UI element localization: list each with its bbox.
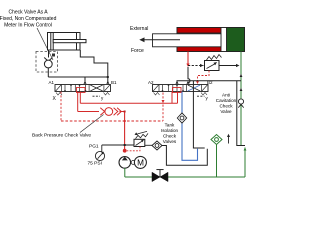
label y with dashes (V2 drain port) [197,95,205,97]
wire: CYL1 cap port to valve V1 port B [80,50,108,84]
svg-text:Meter In Flow Control: Meter In Flow Control [4,22,52,28]
external force arrow [144,39,180,41]
check valve CV2 (back pressure, red) [100,108,121,116]
counterbalance valve CB1 [205,61,220,71]
junction [107,76,109,78]
spring of RV1 [136,133,149,138]
wire: CYL1 rod port down to check valve [48,50,50,58]
check valve CV6 (on green return drop) [238,99,243,104]
svg-text:M: M [137,158,144,167]
label y with dashes (V1 drain port) [93,95,101,97]
svg-text:A2: A2 [148,80,154,85]
svg-text:B1: B1 [111,80,117,85]
wire: A1 riser w/ arrow [84,77,86,84]
wire: pump discharge (red) [124,112,126,151]
wire: V2 tank port (blue) [182,92,198,161]
svg-text:A1: A1 [49,80,55,85]
valve V2 (4/3 solenoid DCV) [153,84,209,95]
svg-text:External: External [130,26,148,32]
leader line from note to check valve [37,28,53,60]
pilot dashed red of CB1 [198,71,210,83]
wire: green riser to suction line [244,148,246,178]
wire: check valve to valve V1 port A [48,76,108,78]
svg-text:Fixed, Non Compensated: Fixed, Non Compensated [0,16,57,22]
svg-text:Back Pressure Check Valve: Back Pressure Check Valve [32,133,91,139]
pump P1 [119,157,131,169]
svg-text:B2: B2 [207,80,213,85]
wire: green stem to suction line [216,145,218,178]
svg-text:Anti: Anti [222,93,230,98]
pilot X dashed lines (red) [60,92,62,122]
wire: black drain L [193,81,204,148]
relief valve RV1 [134,139,145,146]
svg-text:Check Valve As A: Check Valve As A [8,9,48,15]
wire: black down right to tank [237,81,245,146]
svg-text:Cavitation: Cavitation [216,98,237,103]
svg-text:75 PSI: 75 PSI [88,161,102,167]
leader line [80,115,104,133]
wire: CB1 outlet arrow to tank line [219,65,238,67]
wire: CYL2 rod-side port (red) [187,52,189,65]
spring of CB1 [207,55,222,61]
annotation: tank isolation label [161,123,179,145]
text: External Force [130,26,148,54]
wire: CYL2 cap port green down right side [240,52,242,99]
svg-text:Valve: Valve [220,109,232,114]
wire: gauge stub and line to relief (black) [101,145,103,152]
check valve CV3 (tank isolation, diamond) [152,141,162,150]
wire: back pressure line (red, lower) [77,92,79,112]
wire: suction main line (green) [125,176,245,178]
pilot dashed of RV1 [127,147,140,151]
wire: valve V2 A-port line (black) [177,81,241,84]
shutoff valve SV1 (ball valve) [152,172,168,181]
wire: B2 riser with hop [188,67,190,84]
wire: pump suction (green) [124,168,126,177]
check valve CV5 (anti-cavitation, green diamond) [211,135,222,145]
cylinder CYL1 (left, black outline) [48,33,87,51]
check valve CV1 (meter-in, in dashed box) [44,58,52,78]
svg-text:Valves: Valves [163,139,177,144]
wire: relief return U to tank [162,146,207,166]
svg-text:Tank: Tank [165,123,175,128]
wire: dashed into counterbalance [188,65,204,67]
cylinder CYL2 (right, loaded) [153,28,245,52]
wire: relief outlet to tank isolation check [145,144,152,146]
svg-text:Force: Force [131,48,144,54]
annotation: check valve note text [0,9,57,28]
valve V1 (4/3 solenoid DCV) [55,84,111,95]
wire: inter-valve line (red, upper) [79,92,81,104]
svg-text:Check: Check [163,134,177,139]
svg-text:Check: Check [219,104,233,109]
svg-text:PG1: PG1 [89,144,99,150]
annotation: anti cavitation label [216,93,237,115]
svg-text:Isolation: Isolation [161,128,179,133]
dashed enclosure box [36,52,58,73]
motor M1 [131,160,135,164]
arrow up near CV5 [228,137,230,144]
pressure gauge PG1 [95,151,104,160]
check valve CV4 (tank isolation on T line, diamond) [177,113,186,123]
